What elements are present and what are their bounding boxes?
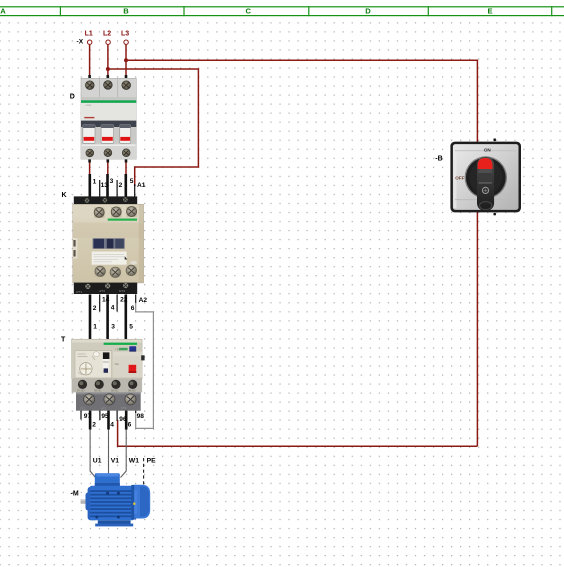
svg-text:95: 95	[101, 413, 109, 420]
svg-text:A1: A1	[137, 182, 146, 189]
svg-text:1: 1	[93, 179, 97, 186]
svg-text:T: T	[61, 337, 66, 344]
svg-text:6: 6	[128, 421, 132, 428]
svg-text:13: 13	[101, 182, 109, 189]
svg-text:W1: W1	[129, 457, 139, 464]
svg-text:PE: PE	[147, 457, 157, 464]
svg-text:D: D	[365, 7, 371, 16]
svg-text:A: A	[0, 7, 6, 16]
svg-text:A2: A2	[139, 297, 148, 304]
svg-text:L2: L2	[103, 31, 111, 38]
svg-text:-M: -M	[71, 491, 79, 498]
svg-text:2: 2	[92, 421, 96, 428]
svg-text:V1: V1	[111, 457, 120, 464]
svg-text:1: 1	[93, 324, 97, 331]
svg-text:TEST: TEST	[115, 348, 122, 352]
svg-text:95 NC: 95 NC	[94, 389, 101, 393]
svg-text:97 NO: 97 NO	[77, 389, 85, 393]
svg-text:C: C	[246, 7, 252, 16]
svg-text:4T2: 4T2	[101, 407, 107, 411]
svg-text:L1: L1	[85, 31, 93, 38]
svg-text:96: 96	[119, 416, 127, 423]
svg-text:5: 5	[130, 178, 134, 185]
svg-text:2/T1: 2/T1	[76, 290, 82, 294]
svg-text:E: E	[487, 7, 492, 16]
svg-text:3: 3	[111, 324, 115, 331]
svg-text:3: 3	[110, 178, 114, 185]
svg-text:97: 97	[84, 413, 92, 420]
svg-text:5: 5	[129, 324, 133, 331]
svg-text:98: 98	[137, 413, 145, 420]
svg-text:SEr: SEr	[115, 362, 120, 366]
svg-text:D: D	[70, 93, 75, 100]
svg-text:6/T3: 6/T3	[119, 289, 125, 293]
svg-text:4: 4	[110, 421, 114, 428]
svg-text:ON: ON	[484, 148, 492, 153]
svg-text:L3: L3	[121, 31, 129, 38]
svg-text:OFF: OFF	[455, 176, 464, 181]
svg-text:2: 2	[119, 182, 123, 189]
svg-text:96 NC: 96 NC	[111, 389, 118, 393]
svg-text:6T3: 6T3	[121, 406, 127, 410]
svg-text:-B: -B	[435, 155, 442, 162]
svg-text:2T1: 2T1	[80, 407, 86, 411]
svg-text:K: K	[62, 192, 67, 199]
svg-text:U1: U1	[93, 457, 102, 464]
svg-text:22: 22	[120, 296, 128, 303]
svg-text:-X: -X	[77, 38, 84, 45]
svg-text:4: 4	[111, 305, 115, 312]
svg-text:B: B	[123, 7, 129, 16]
svg-text:6: 6	[131, 305, 135, 312]
svg-text:4/T2: 4/T2	[99, 289, 105, 293]
svg-text:2: 2	[93, 305, 97, 312]
svg-text:14: 14	[102, 296, 110, 303]
svg-text:98 NO: 98 NO	[128, 389, 136, 393]
